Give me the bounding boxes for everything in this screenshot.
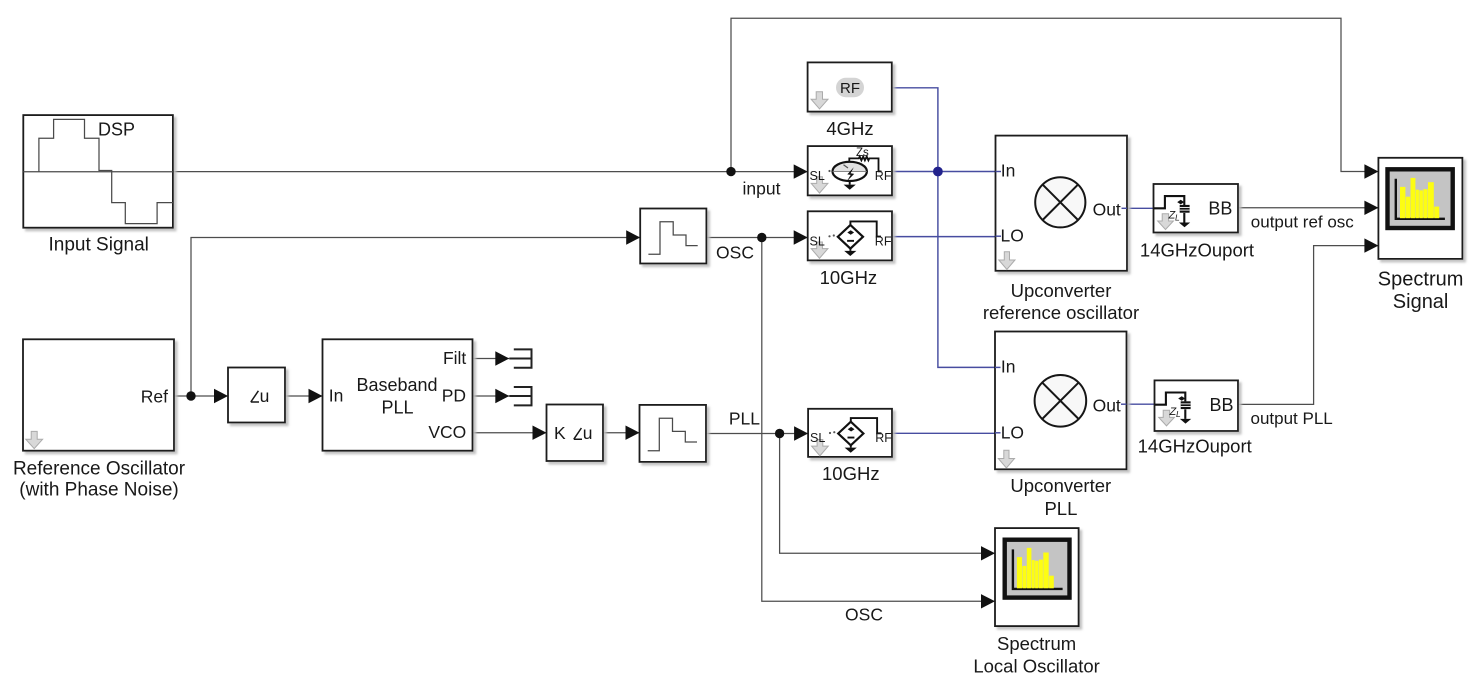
wire input main: [173, 171, 808, 173]
svg-text:Spectrum: Spectrum: [1378, 269, 1464, 291]
arrow into PLL pulse: [626, 426, 640, 440]
svg-text:Baseband: Baseband: [356, 375, 437, 395]
wire blue 4GHz down: [892, 88, 938, 172]
wire blue RF source to upper In: [892, 171, 996, 173]
wire blue 10GHz lower to LO: [892, 432, 995, 434]
svg-text:PLL: PLL: [729, 409, 760, 429]
block 10GHz lower: [808, 409, 892, 457]
svg-text:OSC: OSC: [845, 605, 883, 625]
arrow into spectrum LO top: [981, 546, 995, 560]
wire Ref out: [174, 395, 228, 397]
terminator PD: [509, 387, 531, 405]
block 4GHz: [808, 62, 892, 111]
block Input Signal: [23, 115, 173, 228]
svg-text:RF: RF: [875, 169, 892, 183]
svg-text:14GHzOuport: 14GHzOuport: [1140, 240, 1254, 261]
wire blue Out lower to ouport: [1127, 403, 1155, 405]
svg-text:LO: LO: [1001, 226, 1024, 246]
svg-text:RF: RF: [875, 431, 892, 445]
block Spectrum Signal: [1378, 158, 1462, 259]
block OSC pulse shaper: [640, 209, 706, 264]
svg-text:Filt: Filt: [443, 348, 466, 368]
svg-text:Local Oscillator: Local Oscillator: [973, 656, 1099, 677]
svg-text:Out: Out: [1093, 396, 1121, 416]
block angle-u: [228, 368, 285, 423]
wire PD out: [473, 395, 510, 397]
svg-text:In: In: [1001, 356, 1016, 376]
svg-text:Zs: Zs: [856, 147, 869, 159]
svg-text:SL: SL: [810, 234, 825, 248]
svg-text:SL: SL: [810, 431, 825, 445]
arrow into OSC pulse: [626, 230, 640, 244]
svg-text:OSC: OSC: [716, 243, 754, 263]
arrow into 10GHz upper: [794, 230, 808, 244]
arrow into spectrum signal bottom: [1364, 238, 1378, 252]
svg-text:PLL: PLL: [381, 398, 413, 418]
terminator Filt: [509, 349, 531, 367]
wire OSC pulse out: [706, 237, 807, 239]
svg-text:u: u: [260, 386, 270, 406]
svg-text:4GHz: 4GHz: [826, 118, 873, 139]
block Reference Oscillator: [23, 339, 174, 450]
block Upconverter PLL: [995, 332, 1127, 470]
svg-text:K: K: [554, 423, 566, 443]
svg-text:reference oscillator: reference oscillator: [983, 302, 1139, 323]
wire Ref branch up to OSC pulse: [191, 238, 640, 397]
svg-text:PD: PD: [442, 386, 466, 406]
svg-text:output ref osc: output ref osc: [1251, 213, 1355, 232]
svg-text:Spectrum: Spectrum: [997, 633, 1076, 654]
svg-text:input: input: [743, 179, 781, 199]
wire K angle-u out: [603, 432, 640, 434]
arrow into spectrum LO bottom: [981, 594, 995, 608]
block Baseband PLL: [323, 339, 473, 450]
arrow into 10GHz lower: [794, 426, 808, 440]
svg-text:output PLL: output PLL: [1251, 409, 1333, 428]
node Ref junction: [186, 391, 195, 400]
wire PLL branch down to spectrum LO: [780, 434, 995, 554]
svg-text:L: L: [1176, 409, 1181, 419]
svg-text:BB: BB: [1208, 198, 1232, 218]
wire angle-u to Baseband In: [285, 395, 323, 397]
block 14GHzOuport upper: [1154, 184, 1239, 233]
wire blue Out upper to ouport: [1127, 207, 1154, 209]
svg-text:10GHz: 10GHz: [820, 267, 878, 288]
svg-text:10GHz: 10GHz: [822, 463, 880, 484]
arrow into Baseband In: [309, 389, 323, 403]
wire VCO out: [473, 432, 547, 434]
svg-text:Reference Oscillator: Reference Oscillator: [13, 458, 186, 479]
arrow into angle-u: [214, 389, 228, 403]
wire blue 10GHz upper to LO: [892, 236, 996, 238]
block PLL pulse shaper: [640, 405, 707, 462]
block Upconverter reference oscillator: [996, 136, 1128, 271]
wire BB upper to spectrum: [1238, 207, 1378, 209]
svg-text:RF: RF: [840, 80, 860, 97]
svg-text:u: u: [583, 423, 593, 443]
wire blue vertical to lower In: [938, 172, 995, 368]
svg-text:PLL: PLL: [1044, 498, 1077, 519]
block Spectrum Local Oscillator: [995, 528, 1079, 626]
block 14GHzOuport lower: [1155, 380, 1239, 431]
block RF source Zs: [808, 146, 892, 195]
svg-text:SL: SL: [810, 169, 825, 183]
svg-text:DSP: DSP: [98, 119, 135, 139]
arrow into spectrum signal top: [1364, 164, 1378, 178]
wire PLL pulse out: [706, 433, 808, 435]
wire BB lower up to spectrum: [1238, 246, 1378, 405]
arrow into K angle-u: [533, 426, 547, 440]
wire OSC branch down to spectrum LO: [762, 238, 995, 602]
svg-text:Upconverter: Upconverter: [1011, 280, 1112, 301]
svg-text:Out: Out: [1093, 199, 1121, 219]
arrow at PD terminator: [495, 389, 509, 403]
svg-text:L: L: [1175, 213, 1180, 223]
svg-text:LO: LO: [1001, 423, 1024, 443]
svg-text:Input Signal: Input Signal: [49, 235, 149, 256]
wire input branch to top right: [731, 18, 1368, 171]
node PLL junction: [775, 429, 784, 438]
block K angle-u: [547, 405, 604, 462]
block 10GHz upper: [808, 211, 892, 260]
svg-text:VCO: VCO: [428, 422, 466, 442]
svg-text:(with Phase Noise): (with Phase Noise): [19, 479, 178, 500]
wire Filt out: [473, 358, 510, 360]
node blue RF junction: [933, 167, 943, 177]
node OSC junction: [757, 233, 766, 242]
node input junction: [726, 167, 735, 176]
svg-text:In: In: [1001, 161, 1016, 181]
svg-text:14GHzOuport: 14GHzOuport: [1138, 435, 1252, 456]
arrow into spectrum signal mid: [1364, 201, 1378, 215]
arrow into RF source: [794, 164, 808, 178]
svg-text:BB: BB: [1209, 395, 1233, 415]
svg-text:Ref: Ref: [141, 387, 168, 407]
arrow at Filt terminator: [495, 351, 509, 365]
svg-text:RF: RF: [875, 234, 892, 248]
svg-text:In: In: [329, 386, 344, 406]
svg-text:Signal: Signal: [1393, 291, 1449, 313]
svg-text:Upconverter: Upconverter: [1010, 475, 1111, 496]
